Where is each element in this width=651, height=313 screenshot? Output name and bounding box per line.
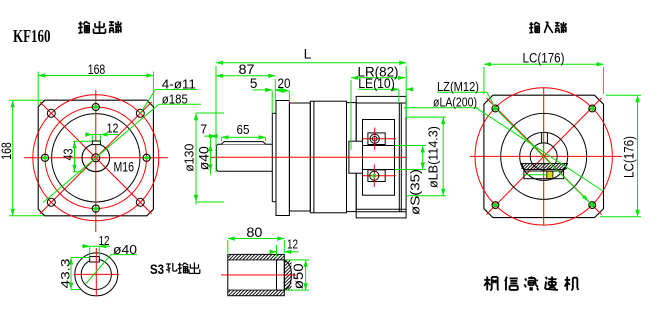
bushing: end cap: [277, 260, 285, 290]
right view: 4 corner holes LZ(M12): [492, 105, 499, 112]
left view: square flange plate: [38, 100, 153, 216]
right view: input bore circle: [530, 143, 557, 170]
right view: clamp hatch band: [521, 163, 567, 169]
right view: green line in screw block: [524, 174, 547, 176]
svg-text:43: 43: [61, 149, 75, 161]
dim 5: [271, 91, 273, 114]
side view: top clamp screw: [370, 134, 379, 143]
label 输出端 (output end): [79, 23, 83, 25]
dim 87: [216, 75, 275, 77]
svg-text:S3: S3: [150, 261, 164, 277]
svg-text:LC(176): LC(176): [622, 136, 637, 178]
svg-text:LC(176): LC(176): [523, 51, 565, 66]
right view: clamp screw block: [524, 171, 564, 179]
svg-text:20: 20: [278, 76, 291, 91]
left view: inner red circle: [45, 107, 147, 209]
side view: adapter cavity: [363, 120, 395, 196]
svg-text:LZ(M12): LZ(M12): [437, 80, 479, 94]
right view: red diagonal 1: [487, 98, 602, 215]
side view: key on shaft: [221, 142, 265, 145]
side view: red centerline: [211, 156, 406, 158]
right view: clamp screw yellow: [547, 171, 553, 178]
svg-text:M16: M16: [114, 159, 135, 175]
left view: pilot boss circle phi130: [52, 114, 140, 202]
left view: bolt circle phi185 red: [33, 95, 159, 221]
S3 dim 12: [89, 247, 91, 256]
dim L: [215, 66, 217, 173]
svg-text:168: 168: [88, 61, 106, 77]
S3 view: outer circle: [75, 253, 118, 296]
svg-text:øS(35): øS(35): [408, 169, 423, 215]
dim LC(176) top: [483, 67, 485, 94]
side view: output shaft: [217, 144, 273, 171]
bushing: red centerline: [221, 274, 296, 276]
svg-text:øLB(114.3): øLB(114.3): [426, 126, 441, 188]
side view: motor adapter flange: [356, 96, 406, 217]
leader LZ(M12): [437, 91, 487, 93]
right view: clamp collar circle: [520, 132, 568, 180]
side view: top clamp screw red cross: [363, 138, 396, 140]
svg-text:65: 65: [237, 123, 250, 137]
left view: center tapped hole M16: [92, 154, 100, 162]
left view: red centerline vertical: [95, 90, 97, 232]
svg-text:87: 87: [239, 61, 255, 77]
svg-text:5: 5: [250, 76, 258, 91]
bushing dim phi50: [285, 259, 309, 261]
dim phiS(35): [395, 145, 427, 147]
svg-text:43.3: 43.3: [59, 258, 73, 288]
side view: pilot boss: [272, 112, 276, 114]
bushing dim 80: [227, 240, 229, 253]
svg-text:LE(10): LE(10): [358, 76, 395, 91]
side view: bore lines: [363, 145, 400, 147]
leader phi185: [159, 103, 201, 105]
S3 view: red crosshair: [74, 273, 119, 275]
svg-text:ø185: ø185: [162, 91, 188, 106]
left view: N/S/E/W holes with green marks: [92, 103, 99, 110]
side view: input face plate lines: [398, 103, 400, 212]
S3 leader phi40: [111, 254, 137, 256]
dim phiLB(114.3): [406, 116, 446, 118]
svg-text:ø50: ø50: [291, 263, 306, 289]
side view: top clamp screw box: [368, 133, 385, 145]
dim LC(176) right: [606, 94, 641, 96]
left view: 4 corner holes phi11: [47, 109, 55, 117]
leader phiLA(200): [404, 107, 478, 109]
svg-text:ø40: ø40: [113, 242, 137, 257]
S3 view: bore circle: [81, 259, 111, 289]
svg-text:4-ø11: 4-ø11: [162, 77, 196, 92]
left view: red diagonal 1: [40, 102, 152, 214]
svg-text:7: 7: [200, 122, 207, 136]
left view: red diagonal 2: [40, 102, 152, 214]
dim 7: [204, 135, 216, 137]
dim 43 left view: [73, 140, 92, 142]
logo text 枫信减速机: [484, 279, 490, 281]
dim LE(10): [398, 90, 400, 103]
bushing dim 12: [276, 245, 278, 258]
svg-text:ø130: ø130: [182, 144, 197, 172]
side view: rear housing ring: [347, 103, 357, 212]
dim 65: [220, 138, 222, 142]
dim phi130 boss: [195, 113, 197, 205]
svg-text:ø40: ø40: [196, 146, 211, 170]
right view: collar slit: [541, 133, 543, 144]
dim LR(82): [350, 80, 352, 150]
dim 168 top: [37, 72, 39, 107]
label 输入端 (input end): [529, 23, 533, 25]
bushing: outer body: [228, 254, 284, 295]
side view: bottom clamp screw: [370, 171, 379, 180]
right view: red centerline vertical: [543, 88, 545, 225]
left view: red centerline horizontal: [24, 157, 168, 159]
svg-text:168: 168: [0, 142, 14, 160]
bushing: dome end: [284, 261, 291, 291]
dim phi40 shaft: [209, 137, 211, 175]
S3 dim 43.3: [71, 257, 90, 259]
svg-text:L: L: [304, 46, 312, 62]
svg-text:øLA(200): øLA(200): [433, 95, 477, 109]
side view: bottom screw red cross: [363, 175, 396, 177]
left view: shaft circle with keyway: [82, 144, 110, 172]
right view: red centerline horizontal: [470, 155, 622, 157]
svg-text:12: 12: [99, 234, 110, 248]
dim 20: [288, 91, 290, 102]
svg-text:12: 12: [287, 238, 298, 252]
svg-text:80: 80: [246, 224, 262, 240]
S3 view: keyway notch: [90, 257, 100, 262]
dim 12 keyway left view: [91, 135, 93, 141]
right view: square flange: [484, 95, 604, 217]
dim 168 left: [9, 99, 44, 101]
svg-text:12: 12: [107, 122, 119, 136]
right view: hub outer circle: [501, 113, 587, 199]
side view: main body: [310, 101, 346, 213]
side view: front housing section: [289, 103, 310, 211]
side view: input bore sleeve: [349, 141, 363, 173]
side view: flange plate edge: [276, 101, 289, 216]
leader 4-phi11: [156, 89, 198, 91]
right view: red diagonal 2: [487, 98, 602, 215]
side view: bottom clamp screw box: [368, 170, 385, 182]
svg-text:KF160: KF160: [13, 26, 51, 46]
right view: bolt circle phiLA(200) red: [475, 88, 612, 225]
